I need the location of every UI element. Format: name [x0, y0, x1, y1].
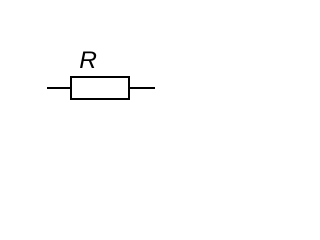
wire (left lead) [47, 87, 70, 89]
resistor R [47, 47, 155, 99]
resistor body [71, 77, 129, 99]
svg-text:R: R [79, 47, 97, 74]
wire (right lead) [130, 87, 155, 89]
